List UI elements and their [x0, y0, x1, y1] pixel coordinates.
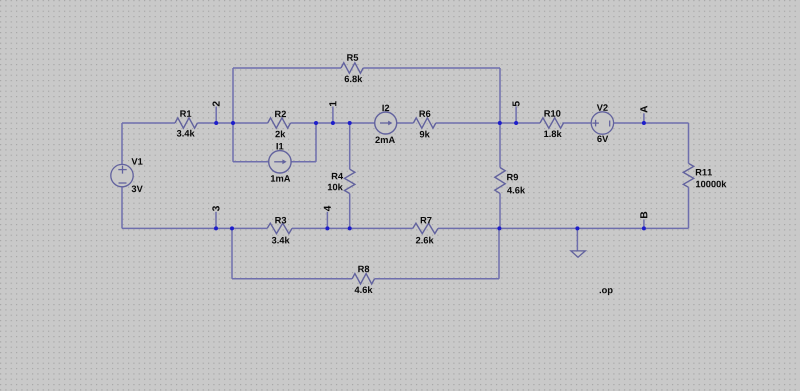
voltage source V2	[591, 104, 613, 134]
resistor R7	[413, 217, 438, 234]
wire V1 bottom lead	[121, 186, 123, 228]
wire R6 to R10	[436, 122, 540, 124]
R1 value 3.4k	[177, 130, 195, 137]
resistor R11	[683, 163, 712, 187]
I2 value 2mA	[375, 137, 395, 143]
wire I2 to R6	[397, 122, 414, 124]
spice directive .op	[600, 288, 613, 295]
junction node 1	[331, 121, 335, 125]
wire node A stub	[643, 113, 645, 123]
resistor R6	[413, 110, 435, 128]
wire R9 bottom lead	[499, 193, 501, 228]
resistor R1	[175, 110, 197, 128]
V1 value 3V	[132, 186, 143, 193]
node 1	[329, 101, 336, 106]
junction node A	[642, 121, 646, 125]
R9 value 4.6k	[507, 187, 525, 194]
V2 value 6V	[597, 136, 608, 143]
resistor R2	[268, 111, 291, 129]
junction ground	[575, 226, 579, 230]
current source I2	[375, 105, 397, 134]
junction node 4	[325, 226, 329, 230]
R5 value 6.8k	[345, 75, 363, 82]
voltage source V1	[111, 158, 143, 187]
junction node 5	[514, 121, 518, 125]
wire R4 top lead	[349, 123, 351, 169]
junction R5/R9	[498, 121, 502, 125]
node 5	[512, 101, 519, 106]
ground	[571, 251, 585, 257]
wire R8 branch left	[232, 278, 352, 280]
junction R5/I1 left legs	[231, 121, 235, 125]
I1 value 1mA	[271, 175, 290, 181]
wire V2 to node A corner	[614, 122, 689, 124]
wire node 4 stub	[326, 212, 328, 229]
R6 value 9k	[420, 131, 430, 138]
junction R4 bottom	[348, 226, 352, 230]
wire R5 left leg	[232, 68, 234, 123]
wire R8 branch right	[375, 278, 500, 280]
wire I1 branch right	[291, 161, 316, 163]
junction I1 right leg	[314, 121, 318, 125]
resistor R5	[341, 54, 363, 73]
wire I1 right leg	[315, 123, 317, 162]
wire R5 branch right	[363, 67, 500, 69]
wire R11 bottom lead	[688, 187, 690, 228]
wire R8 left leg	[231, 228, 233, 278]
junction R9/R8	[497, 226, 501, 230]
junction node 3	[214, 226, 218, 230]
wire I1 left leg	[232, 123, 234, 162]
resistor R9	[495, 168, 518, 194]
R8 value 4.6k	[355, 286, 373, 293]
wire node 1 stub	[332, 107, 334, 124]
resistor R8	[352, 266, 374, 284]
node A	[640, 106, 647, 113]
R7 value 2.6k	[416, 237, 434, 244]
wire node 2 stub	[215, 107, 217, 124]
wire main rail R2 to I2	[291, 122, 375, 124]
junction node B	[642, 226, 646, 230]
wire main rail R1 to R2	[197, 122, 267, 124]
wire node B stub	[643, 219, 645, 228]
wire node 5 stub	[515, 107, 517, 124]
wire R5 right leg	[499, 68, 501, 123]
R4 value 10k	[328, 183, 343, 190]
wire V1 top lead	[121, 123, 123, 164]
node 3	[212, 206, 219, 211]
R10 value 1.8k	[544, 130, 562, 137]
node 4	[324, 206, 331, 211]
wire R4 bottom lead	[349, 194, 351, 229]
wire bottom rail left of R3	[122, 227, 267, 229]
wire R8 right leg	[498, 228, 500, 278]
wire R9 top lead	[499, 123, 501, 168]
resistor R10	[540, 110, 564, 128]
current source I1	[269, 143, 291, 173]
junction node 2	[214, 121, 218, 125]
R2 value 2k	[275, 130, 285, 137]
wire main rail left of R1	[122, 122, 175, 124]
R3 value 3.4k	[272, 237, 290, 244]
wire bottom rail right of R7	[438, 227, 689, 229]
wire R10 to V2	[562, 122, 591, 124]
wire node 3 stub	[215, 212, 217, 229]
wire I1 branch left	[233, 161, 269, 163]
resistor R4	[332, 169, 355, 193]
node 2	[212, 101, 219, 106]
wire R11 top lead	[688, 123, 690, 163]
resistor R3	[267, 217, 292, 234]
junction R8 left leg	[230, 226, 234, 230]
wire R5 branch left	[233, 67, 341, 69]
wire bottom rail R3 to R7	[292, 227, 413, 229]
wire ground stub	[576, 228, 578, 251]
junction R4 top	[348, 121, 352, 125]
R11 value 10000k	[696, 180, 726, 187]
node B	[640, 212, 647, 218]
